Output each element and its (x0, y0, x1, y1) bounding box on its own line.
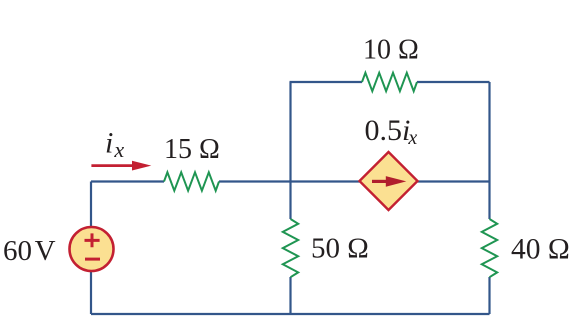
voltage source 60V circle (70, 227, 114, 271)
svg-text:50 Ω: 50 Ω (311, 233, 369, 265)
dependent current source diamond (360, 152, 418, 210)
svg-text:40 Ω: 40 Ω (511, 233, 570, 265)
resistor 15 ohm zigzag (164, 172, 219, 190)
resistor 40 ohm zigzag (482, 219, 497, 277)
wire: top horizontal right segment (417, 81, 490, 83)
wire: middle vertical upper (top loop left side) (289, 82, 291, 219)
svg-text:60V: 60V (3, 235, 56, 267)
svg-text:0.5ix: 0.5ix (365, 114, 418, 149)
voltage source plus sign (85, 233, 100, 247)
dependent source arrow (372, 180, 388, 183)
wire: bottom horizontal (91, 313, 490, 315)
svg-text:15 Ω: 15 Ω (164, 134, 220, 165)
resistor 50 ohm zigzag (283, 219, 298, 277)
wire: right vertical upper (488, 82, 490, 219)
wire: middle vertical lower (289, 277, 291, 314)
svg-text:10 Ω: 10 Ω (363, 35, 419, 66)
voltage source minus sign (85, 258, 100, 261)
wire: middle horizontal left segment (91, 180, 164, 182)
wire: right vertical lower (488, 277, 490, 314)
wire: middle horizontal center segment (219, 180, 490, 182)
resistor 10 ohm zigzag (362, 73, 417, 91)
wire: top horizontal left segment (290, 81, 363, 83)
current arrow i_x (91, 164, 136, 167)
wire: left vertical (90, 182, 92, 315)
